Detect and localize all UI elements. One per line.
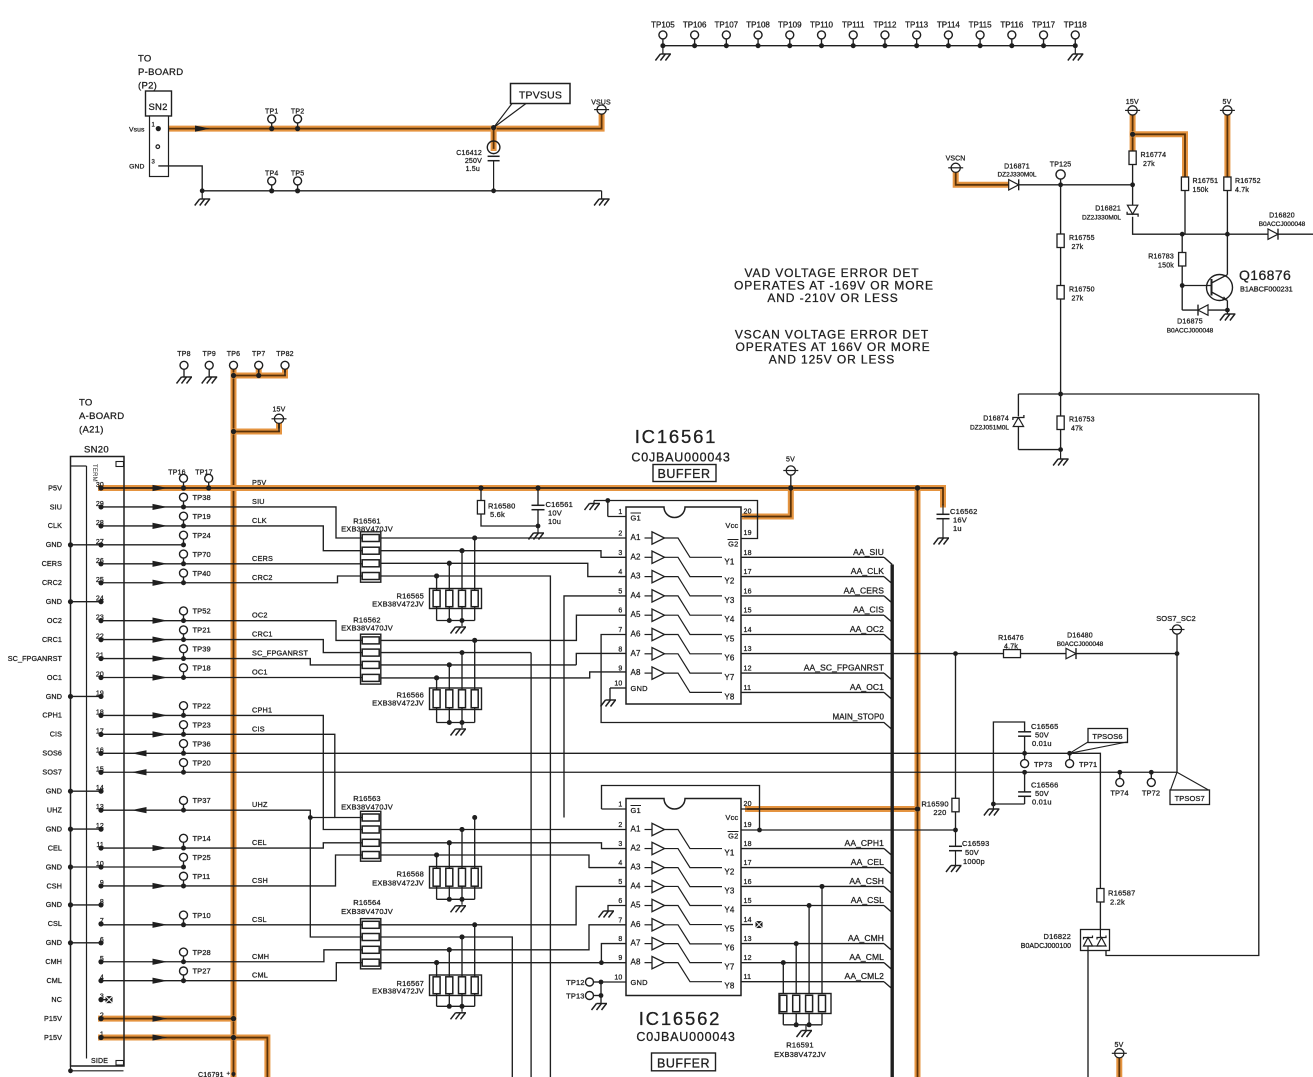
wire Vsus net (VSUS) highlighted	[158, 114, 601, 128]
svg-text:1000p: 1000p	[963, 857, 985, 866]
svg-text:BUFFER: BUFFER	[658, 467, 711, 481]
svg-text:A7: A7	[631, 649, 642, 658]
wire TP82 stem highlighted	[282, 369, 288, 375]
node orange bus split	[915, 485, 920, 490]
wire P5V row	[101, 487, 943, 489]
IC16562 pin 1 G1	[602, 808, 627, 810]
svg-text:A6: A6	[631, 920, 642, 929]
svg-text:GND: GND	[46, 938, 62, 947]
ground VSCAN divider	[1060, 450, 1062, 459]
wire collector to junction	[1226, 234, 1228, 275]
wire A3 jog IC16562	[381, 855, 626, 868]
wire P15V pin2 highlighted	[101, 1016, 234, 1022]
resistor network R16567	[472, 922, 477, 927]
wire divider horizontal	[1018, 393, 1258, 395]
svg-text:Y4: Y4	[724, 906, 735, 915]
wire SIU row	[101, 507, 362, 538]
svg-text:TO: TO	[138, 54, 152, 65]
port SOS7_SC2	[1176, 634, 1178, 653]
resistor R16580	[480, 488, 482, 501]
wire CRC2 row	[101, 576, 362, 583]
svg-text:+: +	[227, 1072, 231, 1077]
svg-text:13: 13	[744, 646, 752, 653]
svg-text:220: 220	[933, 808, 946, 817]
svg-text:A7: A7	[631, 939, 642, 948]
svg-text:CML: CML	[252, 971, 268, 980]
wire A2 jog IC16561	[381, 551, 626, 558]
svg-text:250V: 250V	[465, 158, 482, 165]
resistor network R16561	[361, 532, 381, 582]
svg-text:CERS: CERS	[252, 554, 273, 563]
svg-text:R16591: R16591	[786, 1041, 813, 1050]
svg-text:GND: GND	[46, 692, 62, 701]
wire 5V bottom highlighted	[1116, 1058, 1122, 1077]
node R16590 tap	[953, 651, 958, 656]
svg-text:0.01u: 0.01u	[1032, 739, 1052, 748]
ground right of rail	[601, 191, 603, 199]
testpoint TP11	[180, 872, 188, 880]
svg-text:R16564: R16564	[353, 898, 380, 907]
svg-text:MAIN_STOP0: MAIN_STOP0	[832, 713, 884, 722]
svg-text:TP40: TP40	[193, 569, 211, 578]
ground R16591	[805, 1025, 807, 1030]
svg-text:19: 19	[744, 530, 752, 537]
wire CRC1 branch down	[381, 652, 531, 654]
svg-text:2: 2	[618, 822, 622, 829]
svg-text:AND -210V OR LESS: AND -210V OR LESS	[767, 291, 898, 305]
svg-text:3: 3	[151, 160, 155, 166]
wire AA_CLK	[741, 576, 884, 578]
svg-text:AA_CMH: AA_CMH	[848, 933, 884, 943]
wire AA_CML2	[741, 981, 884, 983]
wire A8 feed from OC1	[381, 672, 626, 678]
callout TPVSUS	[511, 84, 571, 104]
node C16565 tap	[1022, 751, 1027, 756]
testpoint TP21	[180, 626, 188, 634]
wire AA_SC_FPGANRST	[741, 672, 884, 674]
svg-text:18: 18	[744, 841, 752, 848]
svg-text:GND: GND	[46, 787, 62, 796]
svg-text:A6: A6	[631, 630, 642, 639]
svg-text:TP72: TP72	[1142, 789, 1160, 798]
wire A4 feed from R16563 row1	[564, 596, 626, 818]
ground C16593	[946, 866, 962, 873]
svg-text:TP8: TP8	[177, 351, 190, 358]
svg-text:SN20: SN20	[84, 445, 109, 456]
svg-text:GND: GND	[46, 862, 62, 871]
node caps gnd	[991, 802, 996, 807]
svg-text:A8: A8	[631, 668, 642, 677]
wire CLK row	[101, 526, 362, 551]
svg-text:A4: A4	[631, 881, 642, 890]
testpoint TP39	[180, 645, 188, 653]
wire buffer A7 to Y7 IC16561	[665, 654, 723, 673]
svg-text:CRC1: CRC1	[42, 635, 62, 644]
resistor R16774	[1129, 151, 1136, 165]
svg-text:TP106: TP106	[683, 21, 707, 30]
wire TP ground rail top	[663, 45, 1075, 47]
wire 15V port tie	[234, 429, 280, 435]
ground R16568	[461, 899, 463, 905]
node R16752 bottom	[1225, 232, 1230, 237]
wire UHZ drop	[381, 937, 513, 1077]
svg-text:A-BOARD: A-BOARD	[79, 411, 124, 422]
buffer triangle A5 IC16562	[645, 905, 653, 907]
svg-text:R16476: R16476	[998, 635, 1024, 642]
ground pin10 IC16561	[609, 688, 611, 700]
node C16561 bottom	[536, 524, 541, 529]
svg-text:R16751: R16751	[1193, 178, 1219, 185]
node TPVSUS junction	[491, 125, 496, 130]
wire orange bus vertical highlighted	[915, 488, 921, 1077]
svg-text:A1: A1	[631, 825, 642, 834]
wire buffer A1 to Y1 IC16561	[665, 538, 723, 557]
resistor R16753	[1060, 394, 1062, 416]
resistor network R16563	[361, 811, 381, 861]
ground TP row left	[662, 46, 664, 54]
svg-text:TP19: TP19	[193, 512, 211, 521]
svg-text:AND 125V OR LESS: AND 125V OR LESS	[769, 353, 895, 367]
testpoint TP25	[180, 853, 188, 861]
buffer triangle A6 IC16562	[645, 924, 653, 926]
capacitor C16593	[955, 830, 957, 846]
svg-text:Y8: Y8	[724, 692, 735, 701]
buffer triangle A3 IC16562	[645, 867, 653, 869]
wire AA_CSL	[741, 905, 884, 907]
svg-text:Y7: Y7	[724, 963, 735, 972]
testpoint TP22	[180, 702, 188, 710]
testpoint TP23	[180, 721, 188, 729]
node 15V branch	[1130, 132, 1135, 137]
svg-text:AA_CML: AA_CML	[849, 952, 884, 962]
svg-text:5V: 5V	[1223, 99, 1232, 106]
svg-text:P5V: P5V	[252, 478, 266, 487]
buffer triangle A5 IC16561	[645, 614, 653, 616]
ground TP row right	[1074, 46, 1076, 54]
zener D16874	[1017, 394, 1019, 416]
wire D16822 down	[1087, 951, 1089, 1077]
svg-text:SOS7: SOS7	[42, 768, 62, 777]
svg-text:TP114: TP114	[937, 21, 961, 30]
svg-text:EXB38V472JV: EXB38V472JV	[774, 1050, 826, 1059]
svg-text:TP117: TP117	[1032, 21, 1056, 30]
ground C16562	[934, 538, 950, 545]
svg-text:OC2: OC2	[47, 616, 62, 625]
capacitor C16412	[491, 129, 497, 148]
svg-text:TP9: TP9	[202, 351, 215, 358]
svg-text:P5V: P5V	[48, 483, 62, 492]
arrow Vsus direction	[195, 126, 210, 132]
svg-text:TP37: TP37	[193, 796, 211, 805]
wire AA_CEL	[741, 867, 884, 869]
wire A2 jog IC16562	[381, 843, 626, 849]
resistor network R16562	[361, 634, 381, 684]
resistor R16783	[1181, 234, 1183, 252]
svg-text:C16412: C16412	[456, 150, 482, 157]
wire SOS6 row	[101, 753, 1100, 888]
svg-text:16: 16	[744, 879, 752, 886]
svg-text:AA_SIU: AA_SIU	[853, 547, 884, 557]
svg-text:Y7: Y7	[724, 673, 735, 682]
svg-text:(P2): (P2)	[138, 81, 157, 92]
svg-text:6: 6	[618, 898, 622, 905]
buffer triangle A3 IC16561	[645, 576, 653, 578]
node G2 R16590 C16593	[953, 828, 958, 833]
svg-text:TP10: TP10	[193, 911, 211, 920]
svg-text:1: 1	[618, 509, 622, 516]
svg-text:B0ADCJ000100: B0ADCJ000100	[1021, 943, 1071, 950]
wire 5V highlighted	[1224, 115, 1230, 177]
svg-text:TP28: TP28	[193, 948, 211, 957]
resistor network R16564	[361, 919, 381, 969]
svg-text:Y6: Y6	[724, 944, 735, 953]
resistor R16476	[1004, 650, 1021, 658]
wire buffer A5 to Y5 IC16561	[665, 615, 723, 634]
svg-text:B1ABCF000231: B1ABCF000231	[1240, 285, 1293, 294]
ground Q16876 emitter	[1226, 310, 1228, 313]
svg-text:8: 8	[618, 646, 622, 653]
wire A5 feed from OC2	[381, 615, 626, 640]
svg-text:CRC1: CRC1	[252, 630, 273, 639]
wire SOS7 row	[101, 771, 1177, 773]
op-amp buffer IC IC16562 body	[626, 799, 741, 996]
resistor R16751	[1181, 177, 1188, 191]
op-amp buffer IC IC16561 body	[626, 507, 741, 704]
wire G1 to G2 IC16561	[608, 501, 758, 539]
svg-text:GND: GND	[46, 597, 62, 606]
svg-text:Y8: Y8	[724, 982, 735, 991]
testpoint TP18	[180, 664, 188, 672]
svg-text:TP36: TP36	[193, 739, 211, 748]
svg-text:27k: 27k	[1072, 296, 1084, 303]
svg-text:D16874: D16874	[983, 416, 1009, 423]
svg-text:AA_CIS: AA_CIS	[853, 605, 884, 615]
svg-text:TPVSUS: TPVSUS	[519, 90, 562, 102]
svg-text:TP116: TP116	[1000, 21, 1024, 30]
resistor R16587	[1097, 889, 1104, 903]
svg-text:17: 17	[744, 569, 752, 576]
svg-text:27k: 27k	[1072, 244, 1084, 251]
buffer triangle A8 IC16561	[645, 672, 653, 674]
svg-text:11: 11	[744, 685, 752, 692]
svg-text:A4: A4	[631, 591, 642, 600]
resistor network R16565	[472, 536, 477, 541]
wire CSH row	[101, 855, 362, 886]
svg-text:B0ACCJ000048: B0ACCJ000048	[1259, 221, 1306, 228]
svg-text:G2: G2	[728, 832, 738, 841]
svg-text:D16822: D16822	[1044, 932, 1071, 941]
svg-text:TP109: TP109	[778, 21, 802, 30]
svg-text:A3: A3	[631, 863, 642, 872]
svg-text:Y3: Y3	[724, 886, 735, 895]
wire OC2 row	[101, 621, 362, 641]
svg-text:TP110: TP110	[810, 21, 834, 30]
svg-text:OC2: OC2	[252, 611, 268, 620]
svg-text:R16752: R16752	[1235, 178, 1261, 185]
testpoint TP10	[180, 911, 188, 919]
svg-text:4: 4	[618, 860, 622, 867]
svg-text:TP25: TP25	[193, 853, 211, 862]
callout TPSOS6	[1088, 729, 1128, 743]
ground G1 IC16561	[594, 501, 608, 517]
wire A1 row IC16562	[381, 829, 626, 831]
wire GND pin27 to TP24	[101, 544, 184, 546]
testpoint TP24	[180, 531, 188, 539]
svg-text:D16875: D16875	[1177, 319, 1203, 326]
node UHZ branch to R16563	[308, 815, 313, 820]
svg-text:SIU: SIU	[252, 497, 265, 506]
svg-text:15: 15	[744, 608, 752, 615]
svg-text:TP24: TP24	[193, 531, 211, 540]
svg-text:G2: G2	[728, 540, 738, 549]
svg-text:CEL: CEL	[48, 843, 62, 852]
wire AA_CMH	[741, 943, 884, 945]
ground R16565	[461, 621, 463, 627]
buffer triangle A2 IC16561	[645, 556, 653, 558]
svg-text:DZ2J330M0L: DZ2J330M0L	[1082, 215, 1121, 222]
svg-text:CEL: CEL	[252, 838, 267, 847]
svg-text:47k: 47k	[1071, 426, 1083, 433]
svg-text:EXB38V470JV: EXB38V470JV	[341, 525, 393, 534]
svg-text:CSH: CSH	[47, 881, 62, 890]
svg-text:CSL: CSL	[48, 919, 62, 928]
wire buffer A5 to Y5 IC16562	[665, 906, 723, 925]
svg-text:R16774: R16774	[1141, 152, 1167, 159]
testpoint TP14	[180, 834, 188, 842]
svg-text:AA_CSH: AA_CSH	[849, 876, 884, 886]
svg-text:TP22: TP22	[193, 701, 211, 710]
svg-text:0.01u: 0.01u	[1032, 798, 1052, 807]
svg-text:GND: GND	[631, 978, 649, 987]
wire Vcc IC16562 highlighted	[748, 806, 918, 812]
testpoint TP40	[180, 569, 188, 577]
svg-text:TP38: TP38	[193, 493, 211, 502]
svg-text:15V: 15V	[272, 407, 285, 414]
diode D16822	[1081, 930, 1110, 951]
wire A7 feed from SC_FPGANRST	[381, 664, 577, 666]
svg-text:TERM: TERM	[91, 464, 97, 482]
svg-text:CERS: CERS	[42, 559, 62, 568]
testpoint TP27	[180, 967, 188, 975]
testpoint TP36	[180, 740, 188, 748]
svg-text:Y1: Y1	[724, 557, 735, 566]
svg-text:CPH1: CPH1	[42, 711, 62, 720]
svg-text:SN2: SN2	[149, 102, 168, 113]
svg-text:P15V: P15V	[44, 1033, 62, 1042]
svg-text:R16587: R16587	[1108, 889, 1135, 898]
wire 15V stem highlighted	[276, 423, 282, 431]
svg-text:EXB38V472JV: EXB38V472JV	[372, 600, 424, 609]
resistor R16750	[1060, 248, 1062, 286]
node VSCAN divider	[1058, 392, 1063, 397]
svg-text:SC_FPGANRST: SC_FPGANRST	[252, 649, 308, 658]
svg-text:C16791: C16791	[198, 1072, 224, 1077]
ground left of rail	[201, 191, 203, 199]
svg-text:TP73: TP73	[1034, 760, 1052, 769]
testpoint TP74	[1117, 770, 1122, 775]
testpoint TP38	[180, 493, 188, 501]
node C16566 tap	[1022, 770, 1027, 775]
wire AA_CERS	[741, 595, 884, 597]
svg-text:CSL: CSL	[252, 915, 267, 924]
svg-text:4.7k: 4.7k	[1235, 187, 1249, 194]
node R16751 bottom	[1180, 232, 1185, 237]
svg-text:20: 20	[744, 509, 752, 516]
svg-text:A1: A1	[631, 533, 642, 542]
svg-text:GND: GND	[46, 540, 62, 549]
svg-text:TP12: TP12	[566, 978, 584, 987]
svg-text:27k: 27k	[1143, 161, 1155, 168]
buffer triangle A1 IC16561	[645, 537, 653, 539]
wire buffer A6 to Y6 IC16561	[665, 635, 723, 654]
wire 15V highlighted	[1130, 115, 1136, 151]
svg-text:Q16876: Q16876	[1239, 267, 1291, 283]
SN2 pin 2	[156, 145, 160, 149]
testpoint TP37	[180, 796, 188, 804]
buffer triangle A6 IC16561	[645, 634, 653, 636]
svg-text:Vsus: Vsus	[129, 126, 145, 133]
testpoint TP73	[1021, 760, 1029, 768]
wire G2 IC16562 to R16590	[760, 829, 956, 831]
wire SC_FPGANRST row	[101, 659, 362, 665]
testpoint TP70	[180, 550, 188, 558]
connector SN2	[146, 91, 172, 116]
svg-text:A5: A5	[631, 610, 642, 619]
svg-text:AA_CPH1: AA_CPH1	[845, 838, 885, 848]
wire buffer A6 to Y6 IC16562	[665, 925, 723, 944]
resistor network R16566	[472, 638, 477, 643]
svg-text:G1: G1	[631, 514, 641, 523]
svg-text:5V: 5V	[1115, 1042, 1124, 1049]
wire A6 feed MAIN_STOP0	[601, 635, 892, 730]
svg-text:TP6: TP6	[227, 351, 240, 358]
wire buffer A4 to Y4 IC16562	[665, 886, 723, 905]
svg-text:3: 3	[618, 550, 622, 557]
wire R16476 to D16480	[1021, 653, 1067, 655]
svg-text:OC1: OC1	[47, 673, 62, 682]
wire TP13 gnd	[600, 982, 602, 1003]
arrow P5V	[153, 485, 168, 491]
node emitter	[1225, 308, 1230, 313]
svg-text:TP27: TP27	[193, 967, 211, 976]
svg-text:Vcc: Vcc	[725, 813, 738, 822]
svg-text:R16750: R16750	[1069, 287, 1095, 294]
wire A1 row IC16561	[381, 537, 626, 539]
buffer triangle A7 IC16561	[645, 653, 653, 655]
node R16774 bottom	[1130, 182, 1135, 187]
svg-text:TP11: TP11	[193, 872, 211, 881]
svg-text:AA_OC2: AA_OC2	[850, 624, 884, 634]
svg-text:TP70: TP70	[193, 550, 211, 559]
svg-text:EXB38V470JV: EXB38V470JV	[341, 802, 393, 811]
node Q16876 base	[1180, 283, 1185, 288]
buffer triangle A2 IC16562	[645, 848, 653, 850]
svg-text:DZ2J330M0L: DZ2J330M0L	[997, 172, 1036, 179]
svg-text:150k: 150k	[1158, 263, 1174, 270]
diode D16875	[1182, 309, 1227, 311]
wire SN2 GND net	[158, 166, 202, 191]
testpoint TP72	[1149, 770, 1154, 775]
svg-text:3: 3	[618, 841, 622, 848]
node pin1 SN2	[156, 126, 161, 131]
svg-text:Y3: Y3	[724, 596, 735, 605]
wire CML row	[101, 963, 626, 981]
node R16753 bottom	[1058, 447, 1063, 452]
svg-text:SC_FPGANRST: SC_FPGANRST	[8, 654, 63, 663]
wire OC1 row	[101, 677, 362, 679]
svg-text:TP107: TP107	[715, 21, 739, 30]
svg-text:OC1: OC1	[252, 668, 268, 677]
